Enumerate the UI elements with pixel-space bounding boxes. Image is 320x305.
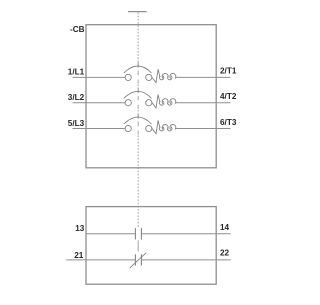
svg-text:1/L1: 1/L1 [68, 68, 85, 77]
svg-text:-CB: -CB [70, 25, 85, 34]
svg-text:6/T3: 6/T3 [220, 118, 237, 127]
svg-text:13: 13 [75, 224, 85, 233]
svg-text:4/T2: 4/T2 [220, 92, 237, 101]
svg-text:5/L3: 5/L3 [68, 119, 85, 128]
svg-text:22: 22 [220, 249, 230, 258]
svg-text:21: 21 [74, 251, 84, 260]
svg-text:14: 14 [220, 223, 230, 232]
svg-text:2/T1: 2/T1 [220, 67, 237, 76]
svg-text:3/L2: 3/L2 [68, 93, 85, 102]
